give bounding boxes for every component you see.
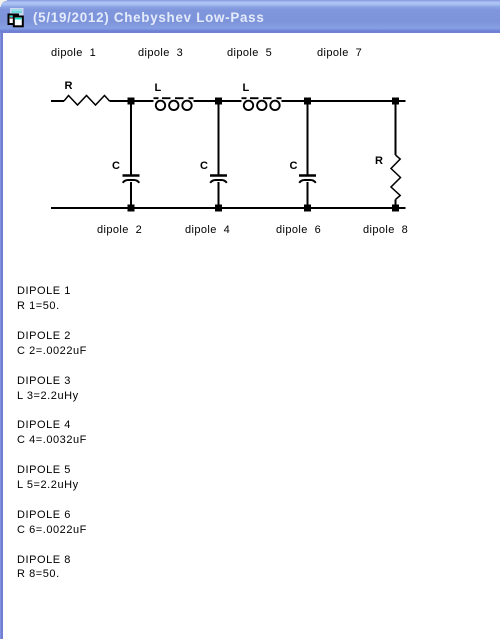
label dipole 7 xyxy=(317,48,362,59)
wire top left lead xyxy=(51,100,64,102)
node top 4 xyxy=(393,98,399,104)
label dipole 8 xyxy=(363,225,408,236)
inductor L5 xyxy=(242,98,282,110)
label L3 xyxy=(155,83,162,94)
label dipole 4 xyxy=(185,225,230,236)
label L5 xyxy=(243,83,250,94)
label dipole 5 xyxy=(227,48,272,59)
wire bottom xyxy=(51,207,406,209)
label C2 xyxy=(112,161,120,172)
resistor R8 xyxy=(391,101,401,208)
wire L3 to L5 xyxy=(194,100,242,102)
label dipole 2 xyxy=(97,225,142,236)
node top 3 xyxy=(305,98,311,104)
resistor R1 xyxy=(64,96,110,106)
node bottom 1 xyxy=(128,205,134,211)
node bottom 3 xyxy=(305,205,311,211)
inductor L3 xyxy=(154,98,194,110)
node bottom 4 xyxy=(393,205,399,211)
label dipole 3 xyxy=(138,48,183,59)
title bar top-left corner notch xyxy=(0,0,7,7)
window icon (MDI cascade windows) xyxy=(0,0,32,32)
label R8 xyxy=(375,156,383,167)
capacitor C4 xyxy=(210,101,227,208)
wire R1 to L3 xyxy=(110,100,154,102)
title bar xyxy=(0,0,500,33)
title text xyxy=(33,11,264,24)
label R1 xyxy=(65,81,73,92)
node top 1 xyxy=(128,98,134,104)
netlist text block xyxy=(17,284,87,582)
label dipole 6 xyxy=(276,225,321,236)
wire L5 to right end xyxy=(282,100,406,102)
node top 2 xyxy=(216,98,222,104)
label C4 xyxy=(200,161,208,172)
window left border xyxy=(0,33,3,639)
capacitor C6 xyxy=(299,101,316,208)
label C6 xyxy=(290,161,298,172)
node bottom 2 xyxy=(216,205,222,211)
label dipole 1 xyxy=(51,48,96,59)
capacitor C2 xyxy=(123,101,140,208)
